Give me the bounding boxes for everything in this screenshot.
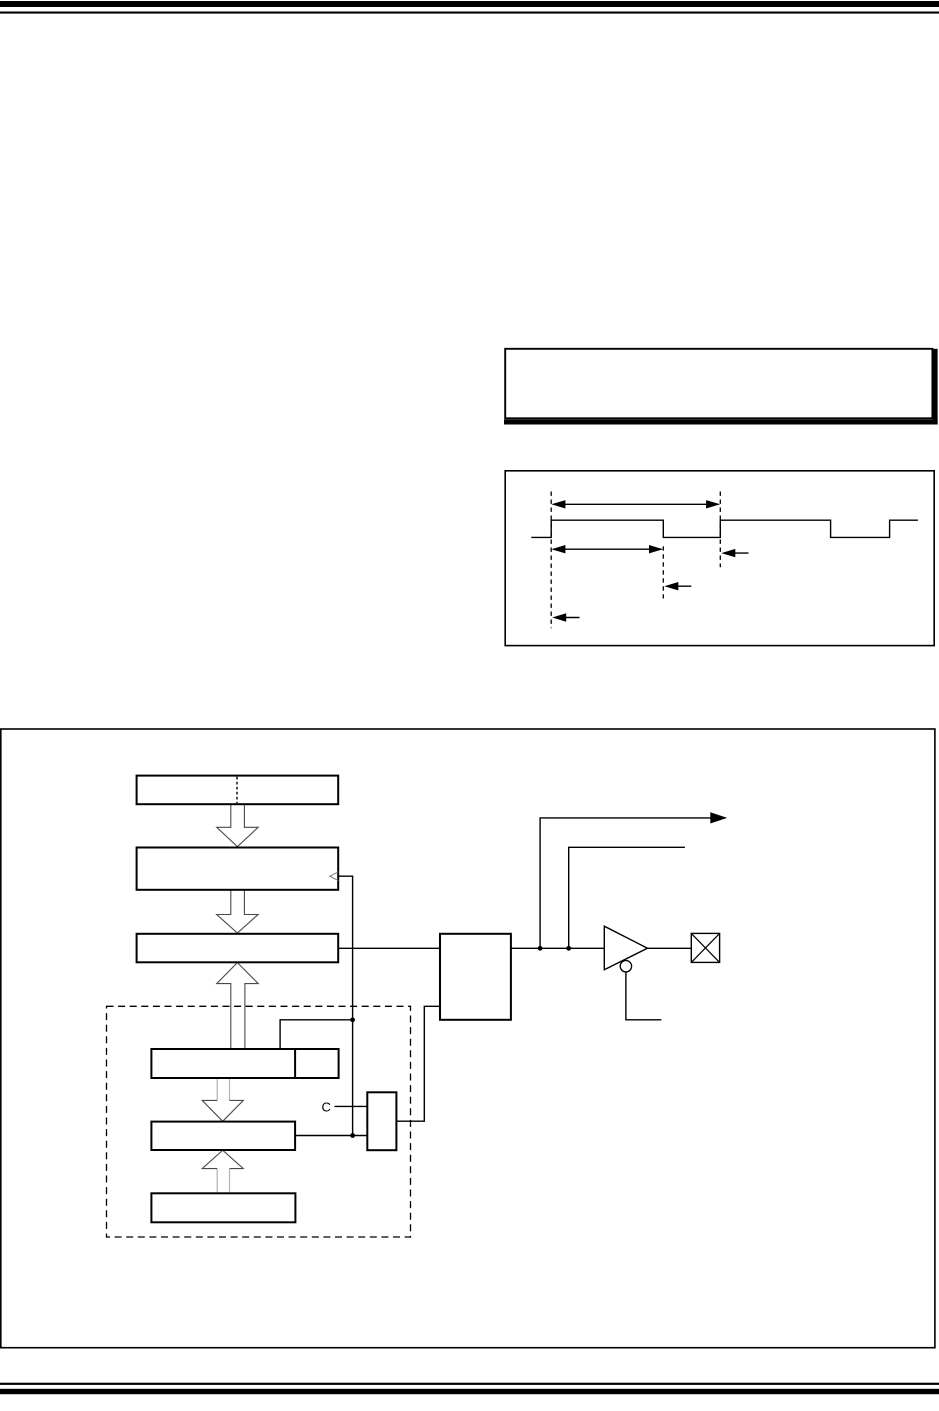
- header thin rule: [0, 12, 939, 14]
- junction dot tap 2: [566, 946, 571, 951]
- junction dot tap 1: [538, 946, 543, 951]
- figure frame: [1, 729, 935, 1348]
- period measurement double arrow: [551, 500, 720, 508]
- small arrow at t1: [552, 613, 579, 621]
- junction dot column-box5 wire: [350, 1133, 355, 1138]
- dashed reference line t2: [662, 546, 664, 598]
- small arrow at t2: [664, 582, 691, 590]
- timing diagram frame: [505, 471, 934, 646]
- dashed reference line t3: [719, 492, 721, 568]
- box register 6: [151, 1193, 295, 1222]
- block arrow up big: [217, 963, 259, 1049]
- clock waveform: [531, 520, 918, 537]
- wire mux to logic box: [396, 1006, 440, 1121]
- dashed reference line t1: [550, 492, 552, 629]
- wire from box2 down to mux column: [338, 876, 352, 1135]
- junction dot column-box4 wire: [350, 1017, 355, 1022]
- note box shadow right: [933, 349, 938, 425]
- header thick rule: [0, 1, 939, 7]
- dashed module box: [107, 1006, 411, 1237]
- enable wire: [626, 972, 662, 1020]
- block arrow down small: [202, 1078, 243, 1121]
- footer thin rule: [0, 1383, 939, 1385]
- output buffer triangle: [604, 926, 647, 970]
- note box shadow bottom: [504, 419, 938, 424]
- wire up to output arrow: [540, 818, 711, 948]
- mux box: [367, 1092, 396, 1150]
- svg-text:C: C: [322, 1099, 331, 1114]
- logic box: [440, 934, 511, 1020]
- box register top: [137, 776, 339, 805]
- high time measurement double arrow: [551, 545, 663, 553]
- I/O pad symbol: [691, 933, 719, 962]
- block arrow up small: [202, 1150, 243, 1193]
- enable bubble: [620, 961, 631, 972]
- box register 2: [137, 848, 339, 890]
- note box: [505, 349, 932, 419]
- dotted divider in top register: [236, 777, 238, 803]
- block arrow down 1: [217, 805, 258, 847]
- open arrowhead into box2: [330, 872, 339, 881]
- output arrowhead: [710, 812, 727, 823]
- wire logic box to pad: [511, 947, 691, 949]
- box register 4: [151, 1049, 338, 1078]
- wire box3 to logic box: [338, 947, 440, 949]
- wire from box4 top to column: [280, 1020, 353, 1049]
- footer thick rule: [0, 1389, 939, 1394]
- block arrow down 2: [217, 890, 258, 933]
- small arrow at t3: [721, 549, 748, 557]
- wire C input: [334, 1105, 367, 1107]
- box register 5: [151, 1122, 295, 1150]
- box register 3: [137, 934, 339, 963]
- wire second tap: [569, 847, 685, 948]
- divider in register 4: [294, 1049, 296, 1078]
- wire box5 to mux: [295, 1135, 367, 1137]
